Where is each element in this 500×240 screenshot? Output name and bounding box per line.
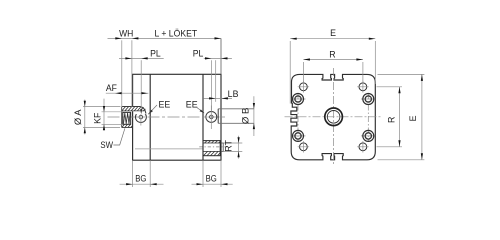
left end-cap inner line — [149, 74, 151, 160]
thread zigzag symbol — [124, 113, 131, 124]
E-h ext left — [289, 41, 291, 104]
rear boss bottom line — [218, 122, 254, 124]
E-v dim line — [421, 74, 423, 159]
R-h arrow left — [303, 58, 310, 60]
R-h arrow right — [356, 58, 363, 60]
KF arrow bottom — [103, 124, 105, 130]
PL left dimension line — [119, 57, 164, 59]
RT bore bottom line — [203, 150, 220, 152]
KF top extension line — [102, 111, 123, 113]
WH extension line right / rod tip — [131, 40, 133, 107]
WH left arrow — [115, 37, 122, 39]
EE right leader arrowhead — [200, 110, 205, 114]
LB dimension line — [204, 97, 232, 99]
AF dimension line — [106, 92, 149, 94]
svg-text:Ø A: Ø A — [73, 109, 83, 125]
screw hole top-left: inner — [295, 96, 302, 103]
PL right arrow b — [221, 57, 228, 59]
small hole top-right — [359, 83, 367, 91]
BG left arrow a — [126, 183, 133, 185]
big hole crosshair left top — [292, 98, 306, 100]
OA arrow top — [84, 101, 86, 107]
R-v ext top — [377, 86, 403, 88]
svg-text:KF: KF — [92, 112, 102, 124]
plate outline with slots and left-edge tabs — [291, 74, 375, 159]
OA bottom extension line — [83, 126, 120, 128]
OB dimension line — [253, 96, 255, 136]
OB arrow top — [253, 103, 255, 109]
plate horizontal centreline — [285, 116, 383, 118]
small hole bottom-right — [359, 143, 367, 151]
LB left ext line — [215, 60, 217, 102]
svg-text:R: R — [329, 49, 335, 59]
port EE right vertical centreline — [210, 106, 212, 130]
EE left leader — [148, 105, 157, 114]
svg-text:RT: RT — [223, 139, 233, 151]
big hole crosshair left bottom — [292, 135, 306, 137]
small hole top-left — [300, 83, 308, 91]
BG left ext b — [149, 160, 151, 187]
centre boss inner — [327, 111, 340, 124]
E-v ext bottom — [378, 159, 425, 161]
E-v arrow bottom — [421, 153, 423, 160]
sensor slot hidden line — [135, 148, 203, 150]
svg-text:PL: PL — [193, 49, 204, 59]
RT bore top line — [203, 142, 220, 144]
screw hole top-right: hex — [366, 96, 371, 102]
EE right leader — [197, 108, 204, 113]
port EE left: inner circle — [139, 115, 143, 119]
plate vertical centreline — [333, 68, 335, 166]
R-h ext left — [302, 62, 304, 83]
rod bottom hatch strip — [122, 125, 133, 128]
BG right ext a — [202, 160, 204, 187]
small hole bottom-right crosshair — [357, 141, 368, 152]
screw hole bottom-left: inner — [295, 133, 302, 140]
R-v dim line — [399, 87, 401, 147]
R-v arrow top — [398, 87, 400, 94]
RT arrow down — [238, 151, 240, 157]
rod bottom edge — [122, 127, 133, 129]
R-h ext right — [362, 62, 364, 83]
svg-text:EE: EE — [159, 100, 171, 110]
PL right dimension line — [204, 57, 232, 59]
svg-text:BG: BG — [135, 173, 146, 183]
PL right arrow a — [205, 57, 212, 59]
RT extension line top — [224, 142, 243, 144]
svg-text:E: E — [408, 115, 418, 121]
small hole top-left crosshair — [298, 81, 309, 92]
svg-text:AF: AF — [106, 83, 118, 93]
svg-text:EE: EE — [186, 100, 198, 110]
port EE right: inner circle — [210, 115, 214, 119]
R-v ext bottom — [377, 146, 403, 148]
R-h dim line — [303, 59, 363, 61]
rod top hatch strip — [122, 107, 145, 111]
RT hole dashed centreline — [199, 146, 227, 148]
RT box top hatch — [205, 141, 221, 143]
port EE left vertical centreline — [140, 110, 142, 126]
E-h arrow right — [369, 38, 376, 40]
BG right arrow a — [197, 183, 204, 185]
port EE right: outer circle — [206, 111, 217, 122]
screw hole top-left: outer — [293, 94, 304, 105]
rear boss left edge — [217, 109, 219, 124]
BG left dim line — [120, 183, 164, 185]
RT arrow up — [238, 137, 240, 143]
E-h dim line — [290, 38, 375, 40]
big hole connector centreline right — [367, 93, 369, 142]
horizontal centerline — [108, 116, 227, 118]
screw hole bottom-left: hex — [295, 133, 300, 139]
port EE left: outer circle — [135, 112, 146, 123]
SW leader — [113, 128, 125, 145]
svg-text:WH: WH — [119, 28, 133, 38]
BG right arrow b — [221, 183, 228, 185]
centre boss outer — [325, 108, 343, 126]
E-h ext right — [374, 41, 376, 84]
PL left arrow a — [125, 57, 131, 59]
BG right ext b — [220, 160, 222, 187]
rear boss top line — [218, 108, 254, 110]
E-h arrow left — [290, 38, 297, 40]
BG left arrow b — [150, 183, 157, 185]
rod top edge — [122, 107, 146, 114]
KF dimension line — [103, 99, 105, 131]
RT dimension line — [238, 136, 240, 159]
rod female thread box KF — [123, 112, 131, 124]
port EE right: centre dot — [211, 116, 212, 117]
L+LOKET right extension line — [220, 38, 222, 74]
R-v arrow bottom — [398, 140, 400, 147]
RT box bottom hatch — [204, 152, 221, 156]
RT extension line bottom — [224, 150, 243, 152]
svg-text:L + LÖKET: L + LÖKET — [155, 28, 198, 38]
small hole top-right crosshair — [357, 81, 368, 92]
svg-text:BG: BG — [206, 173, 217, 183]
screw hole bottom-right: hex — [366, 133, 371, 139]
PL right ext line at port centre — [211, 60, 213, 111]
big hole connector centreline left — [297, 93, 299, 142]
svg-text:R: R — [386, 117, 396, 123]
screw hole top-left: hex — [295, 96, 300, 102]
screw hole top-right: inner — [365, 96, 372, 103]
small hole bottom-left crosshair — [298, 141, 309, 152]
screw hole bottom-left: outer — [293, 130, 304, 141]
svg-text:LB: LB — [228, 89, 239, 99]
WH right / stroke left arrow — [132, 37, 139, 39]
PL left ext arrow to port — [140, 109, 142, 114]
RT stub protrusion — [221, 143, 224, 151]
svg-text:SW: SW — [100, 140, 113, 150]
E-v arrow top — [421, 74, 423, 81]
L+LOKET right arrow — [215, 37, 222, 39]
LB arrow right — [221, 97, 228, 99]
cylinder body outline — [133, 74, 221, 160]
big hole crosshair right top — [361, 98, 375, 100]
screw hole bottom-right: inner — [365, 133, 372, 140]
rod mid line under hatch — [122, 110, 145, 112]
rod left face — [121, 107, 123, 128]
KF bottom extension line — [102, 123, 123, 125]
OB arrow bottom — [253, 123, 255, 129]
KF arrow top — [103, 106, 105, 112]
BG right dim line — [192, 183, 233, 185]
right end-cap inner line — [202, 74, 204, 160]
EE left leader arrowhead — [148, 110, 153, 114]
OA arrow bottom — [84, 127, 86, 133]
WH dimension line with tails — [108, 37, 222, 39]
BG left ext a — [132, 160, 134, 187]
PL left arrow b — [141, 57, 148, 59]
svg-text:PL: PL — [150, 49, 161, 59]
screw hole bottom-right: outer — [363, 130, 374, 141]
RT thread box outline — [203, 141, 220, 156]
screw hole top-right: outer — [363, 94, 374, 105]
AF arrow right — [142, 92, 149, 94]
OA dimension line — [84, 100, 86, 135]
WH extension line left — [121, 40, 123, 107]
svg-text:Ø B: Ø B — [240, 108, 250, 125]
E-v ext top — [378, 73, 425, 75]
piston rod body (white fill covers port circle top) — [122, 107, 147, 115]
LB arrow left — [209, 97, 216, 99]
OA top extension line — [83, 106, 121, 108]
svg-text:E: E — [330, 28, 336, 38]
AF arrow left — [115, 92, 122, 94]
big hole crosshair right bottom — [361, 135, 375, 137]
small hole bottom-left — [300, 143, 308, 151]
port EE left: centre dot — [140, 117, 141, 118]
PL left ext line at port centre — [140, 60, 142, 113]
